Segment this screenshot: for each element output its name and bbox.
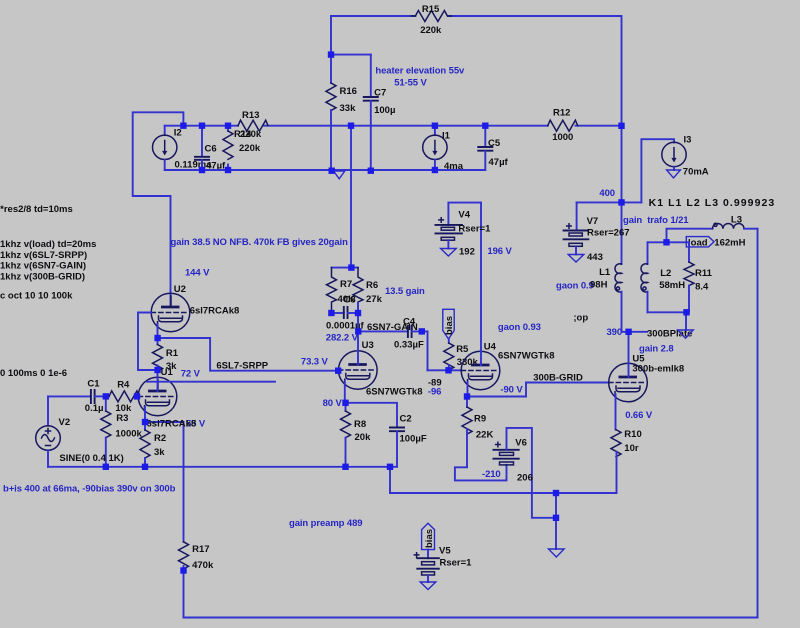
junction U3 grid bbox=[335, 368, 341, 374]
junction U4 cathode node bbox=[464, 393, 470, 399]
svg-text:C1: C1 bbox=[87, 379, 100, 390]
inductor L3 bbox=[713, 215, 758, 249]
wire U2 grid to U1 plate node bbox=[138, 313, 158, 371]
svg-text:L2: L2 bbox=[660, 268, 671, 279]
svg-text:80 V: 80 V bbox=[323, 398, 343, 409]
svg-text:0.1µ: 0.1µ bbox=[85, 403, 104, 414]
voltage source V4 bbox=[435, 203, 492, 258]
svg-text:47µf: 47µf bbox=[489, 157, 509, 168]
svg-text:R5: R5 bbox=[456, 344, 469, 355]
svg-text:R1: R1 bbox=[166, 348, 179, 359]
svg-text:C6: C6 bbox=[205, 144, 217, 155]
svg-text:73.3 V: 73.3 V bbox=[301, 357, 329, 368]
junction C7 bottom bbox=[368, 168, 374, 174]
voltage source V5 bbox=[414, 523, 472, 589]
svg-text:L3: L3 bbox=[731, 215, 742, 226]
svg-text:51-55 V: 51-55 V bbox=[394, 78, 427, 89]
svg-text:443: 443 bbox=[587, 252, 603, 263]
resistor R14 bbox=[223, 126, 261, 170]
junction C5 top bbox=[482, 123, 488, 129]
svg-text:C5: C5 bbox=[488, 138, 501, 149]
svg-text:U3: U3 bbox=[362, 340, 374, 351]
wire grid row to U4 bbox=[428, 369, 462, 371]
inductor L2 bbox=[641, 264, 685, 313]
svg-text:c oct 10 10 100k: c oct 10 10 100k bbox=[0, 291, 73, 302]
junction R7R6 bus bbox=[348, 123, 354, 129]
junction I1 top bbox=[432, 123, 438, 129]
wire L2 bottom row bbox=[648, 311, 687, 313]
svg-text:;op: ;op bbox=[573, 313, 588, 324]
voltage source V7 bbox=[563, 202, 630, 263]
junction U3 plate node bbox=[355, 328, 361, 334]
svg-text:I2: I2 bbox=[174, 128, 182, 139]
junction R16 bottom bbox=[329, 168, 335, 174]
wire 390 row to label bbox=[622, 331, 648, 333]
wire bottom bus bbox=[48, 466, 397, 468]
wire U4 cathode lead bbox=[467, 382, 469, 397]
junction C4 right bbox=[419, 328, 425, 334]
svg-text:3k: 3k bbox=[154, 447, 165, 458]
resistor R15 bbox=[411, 4, 620, 36]
ground flag secondary bbox=[678, 330, 694, 338]
voltage source V2 bbox=[36, 396, 124, 466]
svg-text:V6: V6 bbox=[515, 438, 527, 449]
wire cathode to feedback bbox=[145, 421, 184, 423]
svg-text:V5: V5 bbox=[439, 546, 451, 557]
svg-text:162mH: 162mH bbox=[714, 238, 745, 249]
svg-text:0.33µF: 0.33µF bbox=[394, 340, 424, 351]
junction L2 bottom node bbox=[683, 309, 689, 315]
svg-text:U2: U2 bbox=[174, 284, 186, 295]
svg-text:gain 38.5 NO NFB. 470k FB give: gain 38.5 NO NFB. 470k FB gives 20gain bbox=[171, 237, 349, 248]
svg-text:V7: V7 bbox=[587, 216, 599, 227]
svg-text:33k: 33k bbox=[340, 103, 357, 114]
svg-text:98H: 98H bbox=[590, 280, 608, 291]
junction C1 R4 R3 node bbox=[103, 393, 109, 399]
current source I3 bbox=[641, 135, 708, 203]
svg-text:C8: C8 bbox=[344, 295, 356, 306]
junction 390 node bbox=[625, 329, 631, 335]
svg-text:R2: R2 bbox=[154, 433, 166, 444]
resistor R17 bbox=[179, 542, 214, 618]
junction R14 bottom bbox=[225, 167, 231, 173]
junction R7R6 top bbox=[348, 264, 354, 270]
svg-text:b+is 400 at 66ma, -90bias 390v: b+is 400 at 66ma, -90bias 390v on 300b bbox=[3, 484, 176, 495]
capacitor C8 bbox=[326, 295, 365, 332]
wire U5 cathode lead bbox=[615, 394, 617, 430]
svg-text:390: 390 bbox=[607, 327, 623, 338]
svg-text:4ma: 4ma bbox=[444, 161, 464, 172]
wire load node up to L3 bbox=[667, 229, 713, 243]
svg-text:300B-GRID: 300B-GRID bbox=[533, 373, 583, 384]
junction R17 bottom bbox=[180, 567, 186, 573]
capacitor C5 bbox=[477, 126, 508, 170]
svg-text:6sl7RCAk8: 6sl7RCAk8 bbox=[147, 419, 197, 430]
wire cathode to 300B grid bbox=[468, 383, 610, 397]
svg-text:70mA: 70mA bbox=[683, 167, 709, 178]
svg-text:C2: C2 bbox=[400, 414, 412, 425]
svg-text:72 V: 72 V bbox=[181, 369, 201, 380]
resistor R1 bbox=[153, 338, 179, 372]
svg-text:6sl7RCAk8: 6sl7RCAk8 bbox=[190, 306, 240, 317]
svg-text:1000k: 1000k bbox=[115, 429, 142, 440]
svg-text:R15: R15 bbox=[422, 4, 440, 15]
svg-text:I3: I3 bbox=[684, 135, 692, 146]
flag bias upper bbox=[443, 309, 455, 339]
wire right rail bbox=[757, 229, 759, 618]
svg-text:U4: U4 bbox=[484, 342, 497, 353]
svg-text:1khz v(load) td=20ms: 1khz v(load) td=20ms bbox=[0, 239, 96, 250]
wire C2 drop to lower bus bbox=[389, 467, 391, 493]
resistor R10 bbox=[611, 429, 642, 493]
junction C8 right bbox=[355, 310, 361, 316]
wire U1 cathode lead bbox=[144, 407, 146, 422]
triode U2 bbox=[151, 284, 239, 332]
svg-text:K1 L1 L2 L3 0.999923: K1 L1 L2 L3 0.999923 bbox=[649, 197, 776, 209]
wire feedback vertical bbox=[183, 422, 185, 542]
svg-text:C7: C7 bbox=[374, 88, 386, 99]
junction lower bus gnd bbox=[553, 490, 559, 496]
triode U4 bbox=[461, 342, 554, 390]
resistor R4 bbox=[106, 380, 140, 415]
junction C8 left bbox=[328, 310, 334, 316]
wire load node row bbox=[648, 241, 690, 243]
svg-text:U1: U1 bbox=[161, 367, 174, 378]
wire top bus to R15 bbox=[331, 15, 415, 17]
voltage source V6 bbox=[493, 428, 557, 518]
wire U1 plate lead bbox=[157, 370, 159, 391]
wire main right vertical B+ bbox=[621, 16, 623, 264]
wire U2 cathode lead bbox=[157, 324, 159, 338]
svg-text:bias: bias bbox=[444, 316, 455, 335]
resistor R13 bbox=[238, 110, 268, 140]
junction R8 bottom bbox=[342, 464, 348, 470]
svg-text:bias: bias bbox=[424, 529, 435, 548]
wire top heater bus left drop bbox=[330, 16, 332, 55]
svg-text:470k: 470k bbox=[192, 560, 214, 571]
junction heater node bbox=[328, 51, 334, 57]
junction R3 bottom bbox=[103, 464, 109, 470]
current source I2 bbox=[153, 126, 213, 171]
svg-text:6SL7-SRPP: 6SL7-SRPP bbox=[216, 361, 268, 372]
resistor R5 bbox=[444, 339, 479, 370]
svg-text:R11: R11 bbox=[695, 268, 713, 279]
svg-text:-96: -96 bbox=[428, 387, 441, 398]
wire lower bus bbox=[390, 492, 617, 494]
junction U1 grid node bbox=[134, 393, 140, 399]
svg-text:R6: R6 bbox=[366, 280, 378, 291]
junction C6 bottom bbox=[199, 167, 205, 173]
capacitor C2 bbox=[389, 414, 427, 467]
svg-text:C4: C4 bbox=[403, 317, 416, 328]
svg-text:load: load bbox=[688, 238, 708, 249]
svg-text:100µF: 100µF bbox=[400, 434, 427, 445]
capacitor C7 bbox=[363, 55, 396, 171]
svg-text:L1: L1 bbox=[599, 267, 611, 278]
wire 400 node row bbox=[577, 201, 642, 203]
wire stub right of U1 bbox=[147, 381, 275, 383]
wire ground stub node bbox=[555, 493, 557, 549]
svg-text:Rser=1: Rser=1 bbox=[458, 224, 491, 235]
svg-text:gain preamp 489: gain preamp 489 bbox=[289, 518, 362, 529]
capacitor C6 bbox=[194, 126, 226, 172]
ground flag small at bus bbox=[334, 171, 345, 179]
wire U3 cathode lead bbox=[344, 381, 346, 403]
junction C2 bus drop bbox=[387, 464, 393, 470]
svg-text:10r: 10r bbox=[624, 443, 639, 454]
wire R7R6 top bar bbox=[332, 267, 359, 269]
resistor R3 bbox=[101, 396, 143, 466]
svg-text:-210: -210 bbox=[482, 469, 501, 480]
wire SRPP output bbox=[158, 338, 339, 371]
svg-text:0.66 V: 0.66 V bbox=[625, 410, 653, 421]
triode U1 bbox=[138, 377, 177, 416]
svg-text:I1: I1 bbox=[442, 131, 451, 142]
wire C4 down to grid row bbox=[427, 331, 429, 370]
junction R1 top bbox=[154, 335, 160, 341]
resistor R6 bbox=[353, 268, 383, 313]
inductor L1 bbox=[599, 264, 621, 332]
svg-text:R14: R14 bbox=[234, 129, 252, 140]
svg-text:Rser=267: Rser=267 bbox=[587, 228, 630, 239]
svg-text:)*res2/8 td=10ms: )*res2/8 td=10ms bbox=[0, 204, 73, 215]
resistor R11 bbox=[684, 242, 713, 312]
wire cathode row to C2 bbox=[346, 403, 398, 428]
junction R5 bottom bbox=[445, 367, 451, 373]
wire heater node horizontal bbox=[331, 54, 371, 56]
svg-text:1khz v(300B-GRID): 1khz v(300B-GRID) bbox=[0, 272, 85, 283]
wire bottom rail bbox=[184, 617, 758, 619]
svg-text:R9: R9 bbox=[474, 414, 486, 425]
junction R14 top bbox=[225, 123, 231, 129]
junction I1 bottom bbox=[432, 167, 438, 173]
wire plate node to C4 bbox=[358, 330, 408, 332]
wire C8 node down to plate node bbox=[357, 313, 359, 331]
junction load node bbox=[663, 239, 669, 245]
svg-text:Rser=1: Rser=1 bbox=[440, 558, 473, 569]
current source I1 bbox=[423, 126, 464, 172]
svg-text:1000: 1000 bbox=[552, 132, 573, 143]
wire vertical bus to R7R6 bbox=[350, 126, 352, 268]
svg-text:R7: R7 bbox=[340, 279, 352, 290]
svg-text:gain trafo 1/21: gain trafo 1/21 bbox=[623, 215, 689, 226]
svg-text:192: 192 bbox=[459, 247, 475, 258]
svg-text:1khz v(6SL7-SRPP): 1khz v(6SL7-SRPP) bbox=[0, 250, 87, 261]
resistor R2 bbox=[140, 422, 166, 467]
svg-text:R16: R16 bbox=[340, 86, 357, 97]
svg-text:gaon 0.9: gaon 0.9 bbox=[556, 281, 594, 292]
svg-text:300b-emlk8: 300b-emlk8 bbox=[632, 363, 684, 374]
svg-text:0 100ms 0 1e-6: 0 100ms 0 1e-6 bbox=[0, 368, 67, 379]
svg-text:6SN7WGTk8: 6SN7WGTk8 bbox=[498, 351, 555, 362]
svg-text:8.4: 8.4 bbox=[695, 282, 709, 293]
svg-text:400: 400 bbox=[599, 188, 615, 199]
svg-text:27k: 27k bbox=[366, 294, 383, 305]
svg-text:R17: R17 bbox=[192, 544, 209, 555]
junction U1 cathode node bbox=[142, 419, 148, 425]
wire I2 top loop to U2 plate bbox=[133, 112, 184, 307]
capacitor C1 bbox=[48, 379, 106, 415]
svg-text:V2: V2 bbox=[59, 417, 71, 428]
junction U3 cathode node bbox=[342, 400, 348, 406]
flag load bbox=[686, 237, 714, 249]
junction U1 plate node bbox=[154, 367, 160, 373]
wire bottom bus y170 bbox=[165, 169, 486, 171]
svg-text:220k: 220k bbox=[420, 25, 442, 36]
wire U3 plate lead bbox=[357, 331, 359, 364]
junction 400 node bbox=[618, 199, 624, 205]
svg-text:282.2 V: 282.2 V bbox=[326, 333, 359, 344]
ground flag lower bus bbox=[549, 549, 565, 557]
svg-text:R10: R10 bbox=[624, 429, 641, 440]
svg-text:R12: R12 bbox=[553, 108, 570, 119]
junction loop top bus bbox=[180, 123, 186, 129]
capacitor C4 bbox=[394, 317, 428, 351]
svg-text:20k: 20k bbox=[355, 432, 372, 443]
svg-text:196 V: 196 V bbox=[487, 246, 512, 257]
resistor R8 bbox=[341, 403, 372, 467]
junction C6 top bbox=[199, 123, 205, 129]
resistor R16 bbox=[326, 55, 357, 171]
svg-text:V4: V4 bbox=[458, 210, 470, 221]
svg-text:gaon 0.93: gaon 0.93 bbox=[498, 322, 541, 333]
svg-text:6SN7WGTk8: 6SN7WGTk8 bbox=[366, 387, 423, 398]
svg-text:13.5 gain: 13.5 gain bbox=[385, 286, 425, 297]
svg-text:R4: R4 bbox=[117, 380, 130, 391]
resistor R7 bbox=[327, 268, 356, 313]
junction bus end B+ bbox=[618, 123, 624, 129]
svg-text:144 V: 144 V bbox=[185, 268, 210, 279]
triode U3 bbox=[339, 340, 423, 398]
svg-text:22K: 22K bbox=[476, 430, 494, 441]
svg-text:100µ: 100µ bbox=[374, 105, 395, 116]
triode U5 bbox=[609, 354, 684, 402]
svg-text:SINE(0 0.4 1K): SINE(0 0.4 1K) bbox=[59, 453, 123, 464]
resistor R9 bbox=[455, 397, 507, 481]
svg-text:220k: 220k bbox=[239, 143, 261, 154]
svg-text:58mH: 58mH bbox=[659, 280, 685, 291]
svg-text:1khz v(6SN7-GAIN): 1khz v(6SN7-GAIN) bbox=[0, 261, 86, 272]
svg-text:R13: R13 bbox=[242, 110, 259, 121]
wire ground drop secondary bbox=[685, 312, 687, 330]
svg-text:heater elevation 55v: heater elevation 55v bbox=[375, 66, 465, 77]
svg-text:R3: R3 bbox=[116, 413, 128, 424]
junction V6 plus node bbox=[553, 515, 559, 521]
wire top bus y125.7 bbox=[165, 125, 238, 127]
wire U4 plate lead from V4 row bbox=[480, 203, 482, 365]
svg-text:R8: R8 bbox=[354, 419, 366, 430]
junction R2 bottom bbox=[142, 464, 148, 470]
wire L2 top lead bbox=[647, 242, 649, 264]
resistor R12 bbox=[548, 108, 578, 144]
svg-text:-90 V: -90 V bbox=[500, 385, 523, 396]
wire U5 plate lead bbox=[628, 332, 630, 377]
svg-text:206: 206 bbox=[517, 473, 533, 484]
